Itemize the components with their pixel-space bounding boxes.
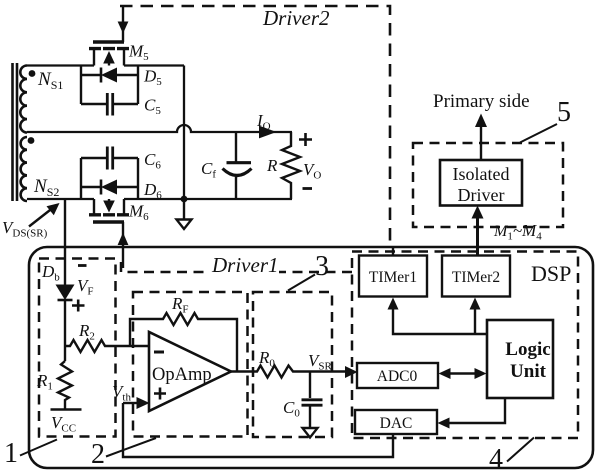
box TIMer1 xyxy=(359,256,427,297)
capacitor C0 xyxy=(302,372,323,429)
transformer winding NS2 xyxy=(21,137,27,201)
svg-text:TIMer2: TIMer2 xyxy=(452,269,500,286)
box ADC0 xyxy=(357,363,438,388)
op-amp U1 feedback branch RF xyxy=(130,313,237,372)
minus sign VF xyxy=(78,264,87,267)
SECTIONS xyxy=(13,63,293,201)
label Driver1 on white xyxy=(209,256,279,275)
transformer winding NS1 xyxy=(20,66,27,133)
svg-text:1: 1 xyxy=(4,438,18,469)
dashed box 4 DSP xyxy=(352,252,578,439)
svg-text:M1~M4: M1~M4 xyxy=(493,221,542,243)
svg-text:2: 2 xyxy=(91,439,105,470)
label 1 slash xyxy=(20,440,57,456)
svg-text:DAC: DAC xyxy=(380,415,413,432)
label 5 slash xyxy=(520,124,557,143)
diode D5 xyxy=(81,66,138,105)
node dot NS1 xyxy=(29,70,36,77)
svg-text:TIMer1: TIMer1 xyxy=(369,269,417,286)
dashed box 3 xyxy=(253,292,332,437)
resistor R1 xyxy=(58,361,72,409)
resistor R0 and output wire xyxy=(231,366,348,378)
svg-text:ADC0: ADC0 xyxy=(377,368,418,385)
node dot NS2 xyxy=(28,137,35,144)
dashed Driver2 box xyxy=(120,6,390,247)
svg-text:Driver2: Driver2 xyxy=(262,6,330,30)
op-amp U1 xyxy=(149,332,231,411)
svg-text:Primary side: Primary side xyxy=(433,91,530,112)
svg-text:3: 3 xyxy=(315,251,329,282)
svg-text:Isolated: Isolated xyxy=(453,164,510,184)
wire top lead NS1 to M5 drain xyxy=(27,64,94,66)
label 3 slash xyxy=(288,275,315,291)
arrowhead into TIMer2 xyxy=(470,298,481,310)
transformer core xyxy=(13,63,18,201)
dashed box 5 xyxy=(413,143,563,227)
capacitor C5 xyxy=(81,93,138,116)
svg-text:Driver1: Driver1 xyxy=(211,253,279,277)
mosfet M5 xyxy=(89,6,129,66)
dashed box 1 xyxy=(39,259,116,437)
arrow into M5 gate from Driver2 xyxy=(118,22,129,34)
resistor R load xyxy=(282,132,300,199)
svg-text:DSP: DSP xyxy=(531,261,571,286)
wire M6 right to output bottom rail xyxy=(124,198,292,200)
big rounded rectangle Driver1 outer xyxy=(29,247,593,468)
label 2 slash xyxy=(106,438,156,457)
arrowhead into TIMer1 xyxy=(388,298,399,310)
box TIMer2 xyxy=(442,256,510,297)
diode Db xyxy=(56,285,75,301)
svg-text:Unit: Unit xyxy=(510,361,547,382)
box DAC xyxy=(355,410,437,434)
minus sign op-amp xyxy=(154,351,164,354)
capacitor C6 xyxy=(81,147,138,200)
svg-text:5: 5 xyxy=(557,97,571,128)
ground symbol output xyxy=(183,199,185,219)
svg-text:4: 4 xyxy=(489,444,503,474)
wire Vth into plus input xyxy=(123,402,138,404)
wire sense line to Db xyxy=(64,199,66,285)
wire TIMer1 stub to rect edge xyxy=(392,247,394,256)
wire M5 source to right vertical xyxy=(124,64,184,66)
wire vertical ground leg x184 xyxy=(183,66,185,200)
dashed Driver1 top edge xyxy=(121,262,357,272)
node junction ground rail xyxy=(181,196,188,203)
VCC terminal bar xyxy=(51,408,82,411)
wire Logic to DAC xyxy=(448,398,505,423)
minus sign VO xyxy=(303,187,313,190)
box Isolated Driver xyxy=(440,160,522,206)
mosfet M6 xyxy=(89,199,129,268)
wire TIMer2 up to Isolated Driver xyxy=(476,217,479,256)
wire center tap output with hop over x184 xyxy=(27,125,292,132)
wire Logic Unit to TIMer arrows xyxy=(393,308,487,334)
wire bottom lead NS2 to M6 xyxy=(27,198,94,200)
resistor R2 xyxy=(65,340,149,352)
arrow Primary side xyxy=(480,126,482,160)
svg-text:Logic: Logic xyxy=(505,339,550,360)
svg-text:R: R xyxy=(266,156,278,175)
arrow VDS(SR) pointer xyxy=(29,209,52,227)
arrow into ADC0 xyxy=(345,366,358,378)
svg-text:Driver: Driver xyxy=(458,185,505,205)
wire ADC0 to Logic double arrow xyxy=(448,372,477,374)
plus sign VO xyxy=(299,133,312,146)
svg-text:OpAmp: OpAmp xyxy=(152,365,212,385)
plus sign VF xyxy=(72,300,85,312)
arrow from Driver1 into M6 gate xyxy=(118,233,129,246)
diode D6 xyxy=(81,180,138,195)
box Logic Unit xyxy=(487,320,553,398)
dashed box 2 xyxy=(133,292,248,437)
plus sign op-amp xyxy=(154,388,166,400)
arrow IO on output wire xyxy=(259,126,277,139)
ground symbol C0 xyxy=(303,428,318,438)
wire Vth from DAC xyxy=(123,403,393,457)
label 4 slash xyxy=(507,438,534,462)
capacitor Cf xyxy=(223,132,252,199)
